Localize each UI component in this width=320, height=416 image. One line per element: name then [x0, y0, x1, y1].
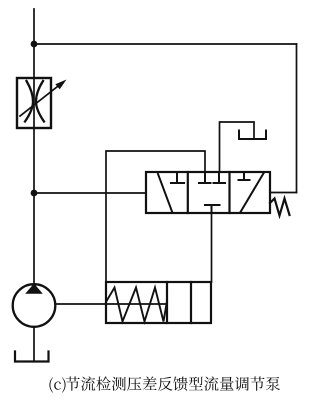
- right position: blocked port T: [239, 172, 250, 180]
- wire: right vertical feedback line: [296, 44, 298, 193]
- right position: flow path diagonal: [241, 173, 265, 213]
- node: junction at valve supply branch: [31, 190, 38, 197]
- stroking cylinder piston: [166, 282, 168, 323]
- directional valve position dividers: [187, 172, 189, 213]
- wire: valve drain line: [220, 122, 255, 172]
- middle position: blocked top port T (left): [199, 172, 211, 183]
- middle position: blocked bottom port T: [205, 205, 220, 213]
- tank symbol: drain reservoir: [239, 131, 266, 140]
- wire: valve output to stroking cylinder: [211, 213, 213, 282]
- pump flow direction triangle: [25, 284, 43, 294]
- wire: valve pilot line loop to actuator spring side: [106, 151, 205, 282]
- directional control valve U1 outer body: [146, 172, 270, 213]
- node: top junction: [31, 41, 38, 48]
- tank symbol: suction reservoir: [15, 352, 49, 362]
- wire: supply line to directional valve P port: [34, 192, 146, 194]
- throttle valve venturi arcs: [25, 81, 33, 122]
- throttle valve adjustability arrow: [20, 83, 62, 116]
- left position: blocked port T: [171, 172, 184, 183]
- throttle valve (adjustable restrictor) body: [17, 78, 51, 128]
- wire: pump control rod link: [56, 303, 167, 305]
- stroking cylinder bias spring: [106, 288, 167, 322]
- stroking cylinder (pump displacement actuator) body: [106, 282, 211, 323]
- wire: pump outlet main vertical line: [33, 9, 35, 284]
- wire: feedback line into valve right pilot: [270, 192, 297, 194]
- wire: top horizontal to feedback branch: [34, 43, 297, 45]
- variable displacement pump P1 body: [13, 284, 56, 327]
- wire: pump suction line: [33, 327, 35, 362]
- valve return spring: [270, 199, 290, 216]
- middle position: blocked top port T (right): [214, 172, 226, 183]
- caption: (c) 节流检测压差反馈型流量调节泵: [49, 376, 280, 392]
- left position: flow path diagonal: [158, 174, 172, 212]
